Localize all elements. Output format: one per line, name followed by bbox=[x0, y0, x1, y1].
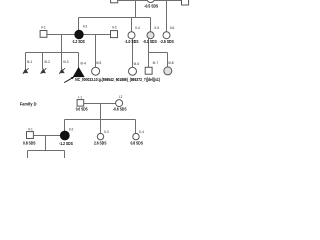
circle family D II-4 bbox=[133, 133, 139, 139]
svg-text:-1.2 SDS: -1.2 SDS bbox=[72, 39, 85, 44]
wire drop to family D II-3 bbox=[100, 120, 102, 134]
svg-text:I-2: I-2 bbox=[119, 95, 123, 99]
svg-text:III-1: III-1 bbox=[27, 60, 33, 64]
circle family D I-2 bbox=[116, 100, 123, 107]
svg-text:0.0 SDS: 0.0 SDS bbox=[76, 107, 88, 112]
wire drop left cut at bottom bbox=[27, 151, 29, 159]
wire couple line II-2 to II-3 bbox=[83, 34, 110, 36]
wire drop to III-1 bbox=[25, 53, 27, 70]
wire drop right cut at bottom bbox=[64, 151, 66, 159]
svg-text:II-2: II-2 bbox=[69, 127, 74, 131]
wire drop to III-2 bbox=[42, 53, 44, 70]
svg-text:0.8 SDS: 0.8 SDS bbox=[23, 141, 36, 146]
wire descent I-2xI-3 to II-6 bbox=[166, 1, 168, 32]
svg-text:II-6: II-6 bbox=[170, 26, 175, 30]
triangle III-3 miscarriage with slash bbox=[59, 68, 65, 74]
svg-text:0.8 SDS: 0.8 SDS bbox=[130, 140, 143, 145]
wire sibship line 1 bbox=[79, 17, 151, 19]
svg-text:III-4: III-4 bbox=[80, 62, 86, 66]
proband arrow bbox=[64, 77, 74, 83]
wire sibship line 2 bbox=[26, 52, 79, 54]
square I-1 (cut by top edge) bbox=[111, 0, 118, 3]
wire drop to III-8 bbox=[167, 53, 169, 68]
svg-text:I-1: I-1 bbox=[78, 95, 82, 99]
svg-text:III-8: III-8 bbox=[168, 61, 174, 65]
circle III-6 bbox=[129, 67, 137, 75]
svg-text:III-5: III-5 bbox=[96, 61, 102, 65]
filled triangle III-4 proband bbox=[74, 68, 84, 77]
wire sibship line 4 bbox=[65, 119, 136, 121]
svg-text:II-4: II-4 bbox=[135, 26, 140, 30]
svg-text:III-7: III-7 bbox=[153, 61, 159, 65]
wire descent II-1xII-2 to sibship 2 bbox=[61, 35, 63, 53]
wire drop to III-3 bbox=[61, 53, 63, 70]
square family D II-1 bbox=[27, 132, 34, 139]
square II-3 bbox=[111, 31, 118, 38]
svg-text:-0.5 SDS: -0.5 SDS bbox=[144, 3, 158, 8]
circle family D II-3 bbox=[97, 133, 103, 139]
svg-text:II-1: II-1 bbox=[41, 26, 46, 30]
svg-text:II-3: II-3 bbox=[104, 130, 109, 134]
square II-1 bbox=[40, 31, 47, 38]
svg-text:-1.2 SDS: -1.2 SDS bbox=[59, 141, 73, 146]
triangle III-1 miscarriage with slash bbox=[23, 68, 29, 74]
wire descent family D I couple to sibship 4 bbox=[100, 104, 102, 120]
svg-text:III-3: III-3 bbox=[63, 60, 69, 64]
svg-text:II-4: II-4 bbox=[139, 130, 144, 134]
svg-text:III-6: III-6 bbox=[134, 62, 140, 66]
svg-text:II-2: II-2 bbox=[83, 24, 88, 28]
wire sibship line 5 bbox=[28, 150, 65, 152]
wire sibship line 3 bbox=[149, 52, 168, 54]
wire descent II-5 to sibship 3 bbox=[148, 39, 150, 53]
wire couple line I-2 to I-3 bbox=[154, 0, 181, 2]
svg-text:II-5: II-5 bbox=[154, 26, 159, 30]
svg-text:NC_000023.10:g.(598542_601886): NC_000023.10:g.(598542_601886)_(865372_?… bbox=[75, 77, 160, 82]
svg-text:Family D: Family D bbox=[20, 101, 37, 106]
square I-3 bbox=[182, 0, 189, 5]
triangle III-2 miscarriage with slash bbox=[41, 68, 47, 74]
wire descent II-2xII-3 to III-5 bbox=[95, 35, 97, 68]
wire drop to family D II-2 bbox=[64, 120, 66, 132]
wire couple line family D II-1 to II-2 bbox=[34, 135, 61, 137]
wire descent II-4 to III-6 bbox=[132, 39, 134, 68]
wire couple line I-1 to I-2 bbox=[118, 0, 147, 2]
svg-text:-0.1 SDS: -0.1 SDS bbox=[143, 39, 157, 44]
svg-text:-2.5 SDS: -2.5 SDS bbox=[160, 39, 174, 44]
wire drop to II-4 bbox=[131, 18, 133, 32]
svg-text:2.6 SDS: 2.6 SDS bbox=[94, 140, 107, 145]
wire drop to family D II-4 bbox=[135, 120, 137, 134]
circle II-6 bbox=[163, 32, 170, 39]
svg-text:III-2: III-2 bbox=[44, 60, 50, 64]
circle I-2 (cut by top edge) bbox=[147, 0, 155, 3]
svg-text:II-1: II-1 bbox=[28, 127, 33, 131]
wire drop to III-7 bbox=[148, 53, 150, 68]
svg-text:-0.6 SDS: -0.6 SDS bbox=[113, 106, 127, 111]
filled circle family D II-2 affected bbox=[60, 131, 69, 140]
wire couple line II-1 to II-2 bbox=[47, 34, 75, 36]
circle II-5 grey carrier bbox=[147, 32, 154, 39]
wire descent I-1xI-2 to sibship 1 bbox=[135, 1, 137, 18]
svg-text:-1.0 SDS: -1.0 SDS bbox=[125, 39, 139, 44]
circle III-5 bbox=[92, 67, 100, 75]
circle II-4 bbox=[128, 32, 135, 39]
filled circle II-2 affected bbox=[75, 30, 83, 38]
circle III-8 grey carrier bbox=[164, 67, 172, 75]
square III-7 bbox=[145, 67, 152, 74]
wire couple line family D I-1 to I-2 bbox=[84, 103, 116, 105]
square family D I-1 bbox=[77, 100, 84, 107]
wire descent family D II couple to sibship 5 bbox=[45, 136, 47, 151]
wire drop to II-5 bbox=[150, 18, 152, 32]
wire drop to III-4 proband bbox=[78, 53, 80, 69]
svg-text:II-3: II-3 bbox=[112, 26, 117, 30]
wire drop to II-2 bbox=[78, 18, 80, 31]
